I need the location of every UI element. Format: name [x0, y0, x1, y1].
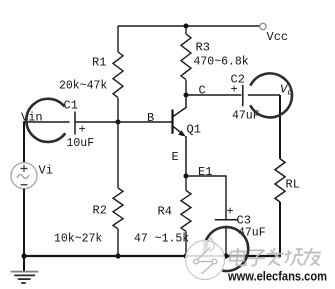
svg-text:E: E	[172, 150, 179, 164]
wire emitter down to E1	[185, 136, 187, 176]
svg-text:www.elecfans.com: www.elecfans.com	[227, 270, 327, 284]
wire C2 to output corner	[248, 94, 280, 96]
svg-text:47 ~1.5k: 47 ~1.5k	[134, 233, 189, 246]
capacitor C2 plate	[242, 85, 244, 106]
ground symbol	[11, 256, 39, 283]
logo node circle right	[212, 259, 217, 264]
Q1 emitter arrowhead	[178, 130, 185, 136]
node junction top (R3 to top rail)	[184, 24, 189, 29]
svg-text:R1: R1	[92, 56, 106, 70]
svg-text:470~6.8k: 470~6.8k	[194, 56, 249, 69]
resistor R1	[113, 26, 123, 122]
wire E1 to C3	[186, 176, 226, 219]
svg-text:+: +	[227, 205, 234, 219]
ground rail wire	[23, 255, 281, 257]
svg-text:Q1: Q1	[187, 123, 201, 137]
Q1 emitter lead	[173, 126, 185, 135]
svg-text:Vcc: Vcc	[267, 30, 289, 44]
svg-text:+: +	[79, 123, 86, 137]
glyph shao	[284, 249, 304, 265]
Vcc terminal	[260, 23, 266, 29]
glyph dian	[229, 248, 247, 265]
wire output corner down to RL	[279, 95, 281, 159]
wire input left segment (Vin corner to C1)	[24, 121, 70, 123]
watermark ring around C3	[204, 227, 248, 271]
transistor Q1 base bar	[171, 110, 173, 134]
logo flame	[206, 238, 214, 251]
svg-text:20k~47k: 20k~47k	[59, 80, 107, 93]
watermark logo white disc	[186, 241, 225, 280]
svg-text:C1: C1	[64, 99, 78, 113]
svg-text:B: B	[147, 111, 154, 125]
wire Vi to ground rail	[23, 189, 25, 256]
Q1 collector lead	[173, 95, 186, 117]
source Vi circle	[11, 163, 37, 189]
glyph fa	[265, 248, 284, 265]
wire C3 to ground rail	[225, 226, 227, 256]
wire top rail from R1 top to Vcc terminal	[118, 25, 260, 27]
resistor R3	[181, 26, 191, 95]
capacitor C3 plate	[215, 219, 238, 221]
resistor R2	[113, 122, 123, 256]
svg-text:R2: R2	[93, 204, 107, 218]
node E1 junction dot	[184, 174, 189, 179]
glyph you	[302, 248, 321, 265]
logo link lines	[198, 248, 214, 274]
svg-text:E1: E1	[198, 165, 212, 179]
svg-text:C3: C3	[237, 214, 251, 228]
svg-text:R4: R4	[158, 205, 172, 219]
Vi plus mark	[21, 165, 28, 172]
rail junction dot (R4)	[183, 253, 188, 258]
watermark ring around C1	[26, 99, 65, 142]
svg-text:+: +	[231, 83, 238, 97]
rail junction dot (C3)	[223, 253, 228, 258]
rail junction dot (R2)	[115, 253, 120, 258]
watermark chinese glyphs (stylised)	[229, 248, 321, 266]
Vi sine squiggle	[17, 175, 29, 179]
svg-text:10k~27k: 10k~27k	[54, 233, 102, 246]
node C junction dot	[184, 93, 189, 98]
wire RL to ground rail	[279, 202, 281, 256]
wire Vin corner down to source Vi	[23, 121, 25, 163]
capacitor C1 plate	[74, 112, 76, 135]
logo node circle left	[194, 259, 199, 264]
resistor RL	[275, 159, 285, 202]
svg-text:RL: RL	[286, 178, 300, 192]
watermark ring around Vo	[250, 73, 292, 117]
Vi minus mark	[21, 184, 28, 186]
node B junction dot	[116, 120, 121, 125]
wire node C to C2	[186, 94, 241, 96]
svg-text:R3: R3	[196, 41, 210, 55]
svg-text:10uF: 10uF	[67, 137, 95, 150]
rail junction dot (input branch)	[21, 253, 26, 258]
svg-text:Vi: Vi	[39, 164, 53, 178]
glyph zi	[247, 250, 266, 265]
resistor R4	[181, 176, 191, 256]
wire C1 to base (through node B)	[75, 121, 172, 123]
